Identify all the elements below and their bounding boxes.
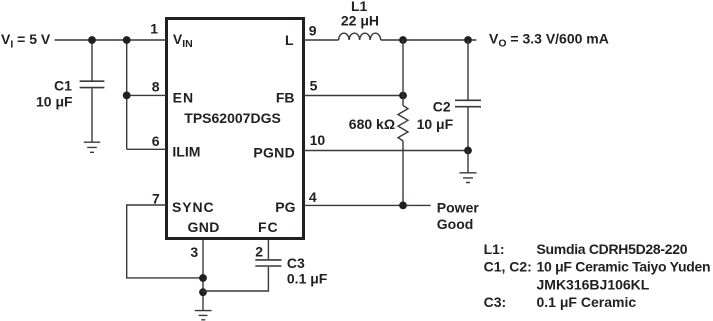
svg-text:2: 2 <box>255 243 263 259</box>
svg-text:FB: FB <box>276 89 295 105</box>
ground under C1 <box>84 142 100 152</box>
resistor 680k <box>398 106 408 141</box>
wire PGND pin 10 <box>304 150 468 152</box>
svg-text:GND: GND <box>188 219 220 235</box>
junction dot C2 to PGND <box>464 147 472 155</box>
svg-text:C1: C1 <box>54 78 72 94</box>
wire SYNC pin 7 loop to GND node <box>127 205 203 278</box>
wire GND pin 3 stem <box>202 240 204 310</box>
svg-text:9: 9 <box>309 23 317 39</box>
svg-text:L: L <box>285 32 294 48</box>
wire C1 branch vertical bottom <box>91 88 93 142</box>
junction dot FB divider on output rail <box>399 36 407 44</box>
svg-text:ILIM: ILIM <box>172 143 200 159</box>
wire C2 branch vertical top <box>467 40 469 100</box>
svg-text:Good: Good <box>437 216 474 232</box>
svg-text:4: 4 <box>309 189 317 205</box>
wire FB pin 5 <box>304 95 403 97</box>
wire EN/ILIM branch vertical <box>126 40 128 149</box>
svg-text:C1, C2:: C1, C2: <box>484 259 532 275</box>
svg-text:L1:: L1: <box>484 241 505 257</box>
junction dot resistor joins PG wire <box>399 202 407 210</box>
svg-text:3: 3 <box>190 244 198 260</box>
ground under GND pin <box>195 311 212 320</box>
svg-text:SYNC: SYNC <box>172 199 215 215</box>
wire PG pin 4 <box>304 204 431 206</box>
wire ILIM pin 6 <box>127 148 166 150</box>
svg-text:5: 5 <box>310 77 318 93</box>
wire pin 9 L to inductor <box>304 39 339 41</box>
svg-text:C3: C3 <box>287 255 305 271</box>
inductor L1 <box>339 33 381 40</box>
svg-text:EN: EN <box>173 89 195 105</box>
op-amp U1 TPS62007DGS body <box>167 19 304 239</box>
capacitor C3 <box>255 260 281 266</box>
wire FC pin 2 to C3 <box>267 240 269 259</box>
svg-text:1: 1 <box>150 21 158 37</box>
junction dot SYNC joins GND stem <box>199 274 207 282</box>
svg-text:10: 10 <box>310 132 326 148</box>
svg-text:10 μF: 10 μF <box>36 94 73 110</box>
svg-text:0.1 μF: 0.1 μF <box>287 271 328 287</box>
capacitor C1 <box>80 81 105 87</box>
wire EN pin 8 <box>127 94 166 96</box>
svg-text:PGND: PGND <box>253 145 295 161</box>
wire FB node to resistor <box>402 40 404 106</box>
wire C1 branch vertical top <box>91 40 93 81</box>
svg-text:C3:: C3: <box>484 294 507 310</box>
wire C3 bottom to GND node <box>203 267 268 291</box>
wire C2 branch vertical bottom <box>467 108 469 151</box>
svg-text:10 μF: 10 μF <box>417 116 454 132</box>
svg-text:C2: C2 <box>433 99 451 115</box>
svg-text:7: 7 <box>152 190 160 206</box>
svg-text:680 kΩ: 680 kΩ <box>349 116 395 132</box>
wire C2 gnd stem <box>467 151 469 173</box>
svg-text:6: 6 <box>152 133 160 149</box>
svg-text:22 μH: 22 μH <box>341 13 379 29</box>
junction dot C3 return joins GND stem <box>199 288 207 296</box>
svg-text:TPS62007DGS: TPS62007DGS <box>184 110 280 126</box>
ground under C2 <box>460 173 477 183</box>
junction dot at C1 on input rail <box>88 36 96 44</box>
capacitor C2 <box>455 100 481 106</box>
svg-text:PG: PG <box>275 199 295 215</box>
svg-text:JMK316BJ106KL: JMK316BJ106KL <box>537 276 650 292</box>
svg-text:Sumdia CDRH5D28-220: Sumdia CDRH5D28-220 <box>537 241 688 257</box>
junction dot C2 on output rail <box>464 36 472 44</box>
svg-text:8: 8 <box>152 79 160 95</box>
wire input rail VI to pin1 <box>55 39 167 41</box>
wire resistor bottom to PG wire <box>402 141 404 206</box>
junction dot at EN wire <box>123 92 131 100</box>
svg-text:0.1 μF Ceramic: 0.1 μF Ceramic <box>537 294 637 310</box>
junction dot FB node <box>399 92 407 100</box>
svg-text:FC: FC <box>258 219 279 235</box>
svg-text:Power: Power <box>437 200 480 216</box>
junction dot at EN branch on input rail <box>123 36 131 44</box>
svg-text:10 μF Ceramic Taiyo Yuden: 10 μF Ceramic Taiyo Yuden <box>537 259 711 275</box>
wire output rail after inductor <box>381 39 477 41</box>
